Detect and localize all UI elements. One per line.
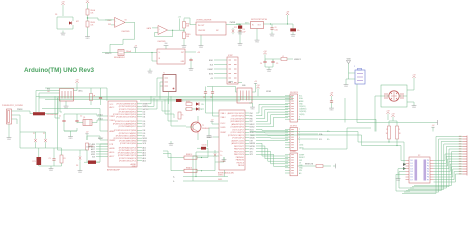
resistor R-t1gate bbox=[178, 112, 183, 119]
wire RN1 right AVCC bbox=[74, 89, 84, 93]
wire into op-amp U5B +input bbox=[152, 27, 158, 29]
svg-text:GP2: GP2 bbox=[250, 151, 253, 153]
capacitor C AREF bbox=[330, 98, 333, 104]
IC ZU3 ATMEGA16U2 box bbox=[219, 110, 245, 170]
diode CD1206 serial bbox=[197, 144, 208, 149]
wire fuse left bbox=[30, 111, 33, 114]
svg-text:(T1/OC1C)PC7: (T1/OC1C)PC7 bbox=[232, 129, 244, 131]
ground under jack bbox=[7, 135, 12, 141]
svg-text:P3: P3 bbox=[427, 168, 429, 170]
label U2 LP2985-33DBVR bbox=[196, 20, 212, 22]
capacitor CG2 22p bbox=[210, 90, 214, 98]
svg-text:100n: 100n bbox=[275, 29, 279, 31]
wire X2 left verticals to bottom nest bbox=[396, 172, 414, 192]
capacitor PC2 input bbox=[234, 26, 242, 30]
diode serial 2 bbox=[214, 150, 216, 171]
wire ZU3 bottom drop bbox=[224, 170, 226, 177]
LED L + resistor bbox=[185, 107, 204, 111]
svg-text:MISO2: MISO2 bbox=[250, 124, 255, 126]
svg-text:D4: D4 bbox=[411, 171, 413, 173]
wire power mux input bbox=[102, 52, 157, 54]
label LMV358 under U5B bbox=[158, 41, 167, 43]
svg-text:(PCINT11/ADC3)PC3: (PCINT11/ADC3)PC3 bbox=[118, 154, 136, 157]
svg-text:LMV358D: LMV358D bbox=[122, 31, 131, 33]
svg-text:22p: 22p bbox=[210, 97, 213, 99]
wire U5A output bbox=[125, 21, 135, 23]
svg-text:Z2: Z2 bbox=[43, 133, 45, 135]
svg-text:MOSI2: MOSI2 bbox=[250, 127, 255, 129]
resistor RN3A 22R bbox=[386, 126, 391, 139]
ground crystal group bbox=[250, 105, 255, 111]
svg-text:Arduino(TM) UNO Rev3: Arduino(TM) UNO Rev3 bbox=[24, 67, 94, 74]
svg-text:(INT4/RTS)PD4: (INT4/RTS)PD4 bbox=[232, 116, 244, 118]
title Arduino(TM) UNO Rev3 bbox=[24, 67, 94, 74]
svg-text:IO4: IO4 bbox=[143, 117, 146, 119]
svg-text:RN1: RN1 bbox=[47, 88, 50, 90]
svg-text:LP2985-33DBVR: LP2985-33DBVR bbox=[196, 20, 212, 22]
diode D3 dark body bbox=[84, 161, 100, 164]
svg-text:GND: GND bbox=[291, 36, 296, 38]
wire bus corner 2 bbox=[168, 98, 178, 121]
wire staircase ZU3 to IO headers bbox=[256, 104, 288, 166]
connector X3 USB right edge bbox=[459, 136, 467, 176]
svg-text:GND: GND bbox=[189, 70, 194, 72]
IC U2 LP2985 box bbox=[196, 22, 226, 35]
wire RESET-EN bbox=[298, 164, 317, 166]
svg-text:UGND: UGND bbox=[221, 127, 227, 129]
svg-text:(PCINT8/ADC0)PC0: (PCINT8/ADC0)PC0 bbox=[119, 146, 136, 149]
wires resonator bbox=[375, 96, 407, 130]
wire RN4B right bbox=[197, 148, 208, 158]
connector IOH header (10pin) bbox=[285, 94, 298, 122]
svg-text:(PCINT3/OC2A/MOSI)PB3: (PCINT3/OC2A/MOSI)PB3 bbox=[113, 137, 136, 140]
ground filter group bbox=[267, 67, 272, 73]
svg-text:VUSB: VUSB bbox=[347, 59, 351, 61]
wire U2 gnd pin bbox=[200, 35, 202, 43]
svg-text:PB4/PCINT4: PB4/PCINT4 bbox=[234, 154, 244, 156]
svg-text:R1: R1 bbox=[64, 158, 66, 160]
svg-text:RESET: RESET bbox=[98, 138, 103, 140]
connector X1 power jack bbox=[7, 109, 16, 124]
svg-text:RN1B: RN1B bbox=[91, 22, 95, 24]
power flag +5V (top-left diode circuit) bbox=[61, 1, 65, 6]
svg-text:T1: T1 bbox=[202, 125, 204, 127]
junction mux wire bbox=[151, 52, 152, 53]
wire bus +5V horizontal bbox=[36, 95, 293, 97]
wire U2 input bbox=[184, 18, 196, 25]
wire D+ net long bbox=[250, 132, 406, 164]
ground serial 2 bbox=[222, 157, 227, 163]
transistor T1 circle bbox=[191, 120, 209, 134]
label POWER hdr bbox=[290, 151, 297, 153]
ground AREF symbol bbox=[329, 104, 334, 112]
wire C3 bbox=[53, 148, 55, 166]
labels IOL nets bbox=[299, 129, 304, 149]
ground mux bbox=[148, 69, 153, 75]
svg-text:GND: GND bbox=[238, 34, 243, 36]
wire bus 4th bbox=[140, 100, 240, 102]
ground under C9 bbox=[189, 66, 194, 72]
power flag +5V filter group bbox=[263, 51, 267, 56]
wire RESET-EN right bbox=[323, 165, 331, 167]
label GATE input U5B bbox=[147, 27, 152, 30]
wire filter caps gnd bbox=[265, 64, 273, 67]
svg-text:RESET2: RESET2 bbox=[207, 137, 213, 139]
wire RN4A right bbox=[197, 170, 215, 171]
svg-text:AD0: AD0 bbox=[143, 146, 146, 149]
svg-text:47u: 47u bbox=[297, 30, 300, 32]
svg-text:L1: L1 bbox=[282, 56, 284, 58]
svg-text:GND: GND bbox=[412, 107, 417, 109]
svg-text:C1: C1 bbox=[59, 116, 61, 118]
ground bottom-left rail bbox=[49, 166, 54, 172]
wire bus VIN horizontal bbox=[39, 97, 293, 99]
diode Z2 zener bbox=[43, 133, 47, 144]
svg-text:3V3: 3V3 bbox=[108, 24, 111, 26]
svg-text:PB1/SCK: PB1/SCK bbox=[237, 162, 245, 164]
resistor RN1C bbox=[183, 22, 192, 29]
svg-text:P0: P0 bbox=[427, 160, 429, 162]
label 3V3 at op-amp U5A -input bbox=[108, 24, 111, 26]
wire left bundle 1 bbox=[55, 96, 60, 118]
svg-text:AD4: AD4 bbox=[143, 157, 146, 160]
svg-text:+: + bbox=[159, 28, 160, 30]
resistor RN0 10K reset pullup bbox=[86, 143, 95, 150]
power symbol +5V on mux wire bbox=[134, 45, 138, 52]
wire bus corner 4 bbox=[162, 101, 170, 111]
svg-text:PB4: PB4 bbox=[250, 113, 253, 115]
svg-text:AD2: AD2 bbox=[143, 152, 146, 155]
resistor RESET-EN bbox=[316, 165, 323, 168]
svg-text:AD1: AD1 bbox=[143, 149, 146, 152]
label IOH bbox=[290, 92, 298, 94]
wire VIN into IC1 bbox=[230, 22, 251, 24]
svg-text:GP3: GP3 bbox=[250, 154, 253, 156]
labels IOH nets bbox=[299, 96, 307, 121]
svg-text:USBVCC: USBVCC bbox=[294, 59, 302, 61]
labels RD+ RD- on D wires bbox=[327, 131, 330, 141]
ground X2 bbox=[396, 169, 406, 182]
IC ZU4 ATMEGA328P box bbox=[108, 101, 137, 167]
wire C6 bbox=[271, 24, 273, 26]
junction U5B output bbox=[172, 30, 173, 31]
svg-text:D+: D+ bbox=[173, 177, 175, 179]
IC U5 LMV358 box bbox=[157, 49, 185, 64]
power symbol shield at nest bbox=[431, 125, 434, 132]
ground reset bbox=[78, 168, 83, 174]
wire C8 to ground bbox=[239, 33, 241, 41]
ground RESET-EN rotated bbox=[333, 164, 336, 169]
wire C8 top bbox=[239, 24, 240, 29]
svg-text:PC3: PC3 bbox=[32, 161, 35, 163]
svg-text:+5V: +5V bbox=[86, 132, 89, 134]
resistor RN1B bbox=[86, 21, 95, 27]
svg-text:ADC6: ADC6 bbox=[110, 151, 115, 154]
svg-text:GND: GND bbox=[255, 42, 260, 44]
wire U5B output bbox=[168, 29, 185, 31]
wire fuse right up to bus bbox=[45, 96, 58, 113]
svg-text:(AIN4/PC0)RXD: (AIN4/PC0)RXD bbox=[231, 142, 244, 145]
wire left feed verticals bbox=[36, 91, 39, 113]
wire U5B feedback loop bbox=[155, 30, 173, 36]
svg-text:Z: Z bbox=[354, 66, 355, 68]
label IOREF bbox=[266, 91, 271, 93]
wire PC1 bbox=[292, 24, 294, 28]
power flag +5V USB pullups bbox=[391, 113, 395, 118]
resistor RN4A 1K bbox=[184, 166, 197, 172]
pins X2 left ticks bbox=[406, 161, 410, 180]
capacitor PC1 output bbox=[290, 28, 299, 32]
svg-text:GND: GND bbox=[78, 172, 83, 174]
svg-text:1K: 1K bbox=[182, 115, 184, 117]
wire jack pins down bbox=[15, 115, 20, 148]
label ZU3 ATMEGA16U2-MU bbox=[218, 172, 235, 175]
svg-text:IN OUT: IN OUT bbox=[198, 25, 205, 27]
resistor RN4B 1K bbox=[184, 154, 197, 159]
svg-text:POWERSUPPLY_DC21MMX: POWERSUPPLY_DC21MMX bbox=[2, 105, 24, 107]
svg-text:C5: C5 bbox=[276, 63, 278, 65]
svg-text:UGND: UGND bbox=[218, 179, 222, 181]
svg-text:(PCINT9/OC1B)PC5: (PCINT9/OC1B)PC5 bbox=[228, 135, 244, 137]
power flag +5V above headers bbox=[256, 85, 260, 96]
wire op-amp U5A inputs bbox=[105, 20, 115, 25]
wire filter to USBVCC bbox=[287, 59, 302, 61]
svg-text:GND: GND bbox=[61, 35, 66, 37]
wire bus corner 3 bbox=[165, 100, 174, 119]
wire R-avcc bbox=[90, 88, 92, 105]
wire zener bottom bbox=[36, 144, 46, 148]
svg-text:AD3: AD3 bbox=[143, 154, 146, 157]
label DP dark bbox=[173, 177, 175, 184]
svg-text:C3: C3 bbox=[48, 158, 50, 160]
ground above serial section bbox=[169, 141, 174, 147]
svg-text:(PCINT1/OC1A)PB1: (PCINT1/OC1A)PB1 bbox=[119, 132, 136, 135]
capacitor C6 bbox=[270, 26, 278, 31]
wire resonator x345 vertical bbox=[344, 98, 346, 123]
ground under D1 bbox=[61, 31, 66, 37]
svg-text:IOREF: IOREF bbox=[266, 91, 271, 93]
junction resistor chain bbox=[183, 30, 184, 31]
label ZU4 ATMEGA328P bbox=[107, 169, 121, 172]
svg-text:MOSI: MOSI bbox=[209, 74, 214, 76]
wire AREF into IC bbox=[42, 109, 108, 132]
svg-text:PB0/SS: PB0/SS bbox=[238, 165, 245, 167]
wire D- under ZU3 bbox=[183, 179, 228, 181]
svg-text:D3: D3 bbox=[411, 168, 413, 170]
label IOL bbox=[290, 126, 297, 128]
wire reset net bbox=[87, 136, 108, 155]
pins U2 bbox=[198, 25, 219, 32]
wire PC2 to rail bbox=[236, 24, 240, 26]
svg-text:P4: P4 bbox=[427, 171, 429, 173]
svg-text:MOSI: MOSI bbox=[91, 152, 95, 154]
IC X2 USB box bbox=[409, 157, 430, 183]
connector ICSP 2x3 bbox=[227, 57, 238, 84]
svg-text:P5: P5 bbox=[427, 174, 429, 176]
group box resonator bbox=[381, 85, 407, 107]
svg-text:GND: GND bbox=[148, 73, 153, 75]
svg-text:T1: T1 bbox=[163, 73, 165, 75]
label IC1 NCP1117ST50T3G bbox=[251, 19, 268, 21]
svg-text:D7: D7 bbox=[411, 179, 413, 181]
svg-text:OUT: OUT bbox=[181, 52, 184, 54]
svg-text:1K: 1K bbox=[399, 133, 401, 135]
power symbol +5V at crystal group bbox=[252, 81, 257, 92]
svg-text:(PCINT23/AIN1)PD7: (PCINT23/AIN1)PD7 bbox=[119, 125, 136, 128]
wires ZU3 left power pins bbox=[207, 119, 219, 139]
wires+labels ZU3 right stubs bbox=[245, 113, 256, 156]
svg-text:XTAL2: XTAL2 bbox=[110, 119, 115, 122]
svg-text:(PCINT10)PC4: (PCINT10)PC4 bbox=[232, 138, 244, 140]
resistor R? filter bbox=[281, 56, 287, 61]
svg-text:D6: D6 bbox=[411, 177, 413, 179]
svg-text:USBVCC: USBVCC bbox=[105, 53, 112, 55]
resistor RN1D bbox=[183, 32, 192, 39]
wire avcc verticals bbox=[101, 88, 108, 101]
svg-text:X2: X2 bbox=[418, 155, 420, 157]
ground under IC1 bbox=[255, 38, 260, 44]
resistor array RN1 box bbox=[60, 89, 74, 102]
wire between chain resistors bbox=[183, 28, 185, 32]
svg-text:AD5: AD5 bbox=[143, 159, 146, 162]
svg-text:PB5/PCINT5: PB5/PCINT5 bbox=[234, 151, 244, 153]
wire VIN mid rail bbox=[20, 147, 62, 149]
svg-text:(AIN2/PC2)XCK/PD5: (AIN2/PC2)XCK/PD5 bbox=[228, 112, 244, 115]
wires into RN1 left bbox=[36, 91, 60, 94]
connector IOL header (8pin) bbox=[285, 128, 298, 151]
wire ESD down bbox=[356, 84, 358, 123]
ground under U2 bbox=[199, 43, 204, 49]
label X1 POWERSUPPLY_DC21MMX bbox=[2, 105, 24, 107]
wire IC1 tab to ground bbox=[256, 29, 258, 38]
svg-text:(PCINT12/SDA)PC4: (PCINT12/SDA)PC4 bbox=[119, 157, 136, 160]
power symbol VUSB triangle bbox=[347, 59, 351, 73]
svg-text:SCL: SCL bbox=[319, 139, 322, 141]
wire resistor chain top bbox=[183, 18, 185, 21]
fuse F1 bar bbox=[33, 112, 59, 116]
svg-text:(ICP1/CLK0)PC6: (ICP1/CLK0)PC6 bbox=[231, 132, 244, 134]
svg-text:D0: D0 bbox=[411, 160, 413, 162]
power flag +5V at IC1 output bbox=[286, 12, 290, 17]
wires+labels IC ZU4 left ADC stubs bbox=[86, 143, 108, 159]
svg-text:M8TXD: M8TXD bbox=[250, 146, 256, 148]
svg-text:(TXD1/INT3)PD3: (TXD1/INT3)PD3 bbox=[231, 118, 244, 120]
wire RN1 bottom to ground bbox=[65, 101, 67, 104]
wire RN3A bottom junction bbox=[388, 139, 389, 143]
wire left bundle 3 bbox=[60, 100, 62, 113]
svg-text:+5V: +5V bbox=[254, 81, 257, 83]
svg-text:PWRIN: PWRIN bbox=[230, 22, 236, 24]
svg-text:(PCINT20/XCK/T0)PD4: (PCINT20/XCK/T0)PD4 bbox=[116, 117, 136, 119]
ground under PC1 cap bbox=[291, 32, 296, 38]
labels POWER nets bbox=[299, 155, 305, 175]
svg-text:P7: P7 bbox=[427, 179, 429, 181]
ground U5 above box bbox=[164, 43, 169, 49]
resistor RN1A bbox=[86, 9, 96, 15]
wire IC1 output rail bbox=[264, 23, 294, 25]
svg-text:(PCINT9/ADC1)PC1: (PCINT9/ADC1)PC1 bbox=[119, 149, 136, 152]
wire X1 pin1 PWRIN bbox=[15, 109, 30, 111]
svg-text:AVCC: AVCC bbox=[110, 106, 116, 109]
wire chain to ground bbox=[183, 39, 185, 44]
power flag +5V AREF bbox=[330, 93, 334, 98]
wire nest USB connector to X2 bbox=[402, 137, 462, 194]
wire XTAL1 net bbox=[64, 114, 108, 119]
svg-text:GND: GND bbox=[169, 145, 174, 147]
crystal Q1 16MHz bbox=[83, 117, 92, 126]
svg-text:C4: C4 bbox=[260, 63, 262, 65]
svg-text:+: + bbox=[115, 21, 116, 23]
IC X2 USB pin labels bbox=[411, 160, 430, 182]
wire D+ under ZU3 bbox=[183, 175, 228, 177]
svg-text:D2: D2 bbox=[411, 166, 413, 168]
wire cg ground bbox=[249, 99, 253, 105]
wire M8TXD to RN4A bbox=[163, 154, 184, 171]
wire +5V pullup split bbox=[389, 119, 397, 126]
svg-text:IN: IN bbox=[252, 24, 254, 26]
svg-text:L: L bbox=[201, 109, 202, 111]
wire ICSP gnd bbox=[238, 83, 246, 88]
wire from resonator down joins D+ bbox=[374, 130, 376, 132]
power symbol +5V reset pullup bbox=[85, 132, 88, 140]
label XTAL dark bbox=[98, 113, 103, 120]
ground under resistor chain bbox=[182, 43, 187, 49]
wire jack shield to ground bbox=[8, 124, 10, 135]
svg-text:ICSP: ICSP bbox=[228, 55, 233, 57]
ground resonator bbox=[407, 102, 417, 109]
diode D3 reset bbox=[76, 155, 81, 167]
IC ZU3 left pin labels bbox=[221, 112, 227, 163]
resistor RN3B 22R bbox=[396, 126, 401, 139]
label X2 bbox=[418, 155, 420, 157]
wire serial gnd link bbox=[215, 157, 224, 162]
wire +5V to diode bridge bbox=[62, 7, 64, 16]
crystal group CG box bbox=[237, 88, 252, 103]
power flag +5V (divider) bbox=[86, 0, 90, 5]
svg-text:FDN340P: FDN340P bbox=[202, 128, 209, 130]
IC ZU4 left pin labels bbox=[110, 104, 117, 158]
svg-text:3V3: 3V3 bbox=[245, 23, 248, 25]
wires T1 transistor bbox=[186, 116, 198, 140]
ground under C6 bbox=[270, 32, 275, 38]
svg-text:NCP1117ST50T3G: NCP1117ST50T3G bbox=[251, 19, 268, 21]
svg-text:Q1: Q1 bbox=[83, 117, 85, 119]
svg-text:Z1: Z1 bbox=[33, 133, 35, 135]
svg-text:16MHz: 16MHz bbox=[228, 82, 233, 84]
svg-text:GND: GND bbox=[396, 180, 401, 182]
svg-text:AREF: AREF bbox=[299, 100, 304, 103]
capacitor C9 at U5 bbox=[189, 58, 192, 66]
op-amp U5A bbox=[115, 17, 126, 27]
svg-text:USBVCC: USBVCC bbox=[218, 175, 224, 177]
wire D- net long bbox=[250, 135, 406, 161]
svg-text:GND: GND bbox=[7, 139, 12, 141]
svg-text:UVCC: UVCC bbox=[221, 123, 227, 125]
svg-text:ADC7: ADC7 bbox=[110, 155, 115, 158]
label 5V at U5A output bbox=[125, 19, 128, 21]
svg-text:SCK: SCK bbox=[92, 157, 95, 159]
wires ZU3 D+ D- pins bbox=[193, 152, 219, 181]
wire RN3B bottom junction bbox=[396, 139, 397, 146]
svg-text:GND: GND bbox=[344, 86, 349, 88]
wire U5A feedback bbox=[110, 22, 135, 52]
wire taps to top bus bbox=[148, 96, 157, 109]
label 3V3 net bbox=[245, 23, 248, 25]
wire bus 3V3 horizontal bbox=[45, 99, 293, 101]
wire divider tap to comparator bbox=[88, 18, 113, 20]
svg-text:−: − bbox=[115, 26, 116, 28]
svg-text:IOH 10POS: IOH 10POS bbox=[290, 92, 298, 94]
